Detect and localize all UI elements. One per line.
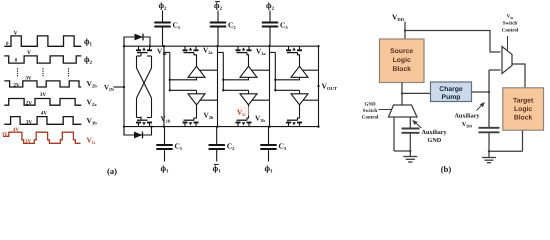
phi2 label [84, 55, 93, 66]
wire auxiliary VDD vertical [489, 70, 501, 128]
op-amp buffer A3b (down) [291, 94, 308, 105]
transistor M1b bottom pass device [183, 120, 199, 126]
node V3a label [256, 47, 266, 56]
svg-text:Pump: Pump [442, 94, 461, 101]
svg-text:Auxiliary: Auxiliary [422, 129, 448, 136]
wire cell 1 bias vertical [164, 52, 170, 90]
wire gate of M1a to buffer output [194, 53, 197, 67]
svg-text:V: V [13, 30, 17, 36]
Auxiliary GND label with arrow [412, 120, 447, 144]
wire buffer A2b output to gate of M2b [247, 105, 249, 120]
wire auxiliary VDD ground junction to Target block [488, 130, 523, 152]
op-amp buffer A1a (up) [188, 66, 205, 77]
waveform V3b trace [4, 110, 81, 125]
svg-text:Logic: Logic [514, 106, 532, 113]
transistor M2b bottom pass device [236, 120, 252, 126]
svg-text:Control: Control [502, 28, 519, 34]
wire GND mux left leg to ground [394, 117, 410, 151]
svg-text:3V: 3V [25, 138, 32, 144]
Auxiliary VDD label with arrow [454, 102, 484, 128]
wire buffer A1a supply tap [200, 69, 218, 71]
wire to Charge Pump input [402, 92, 431, 94]
node V1a label [157, 47, 167, 56]
node V3b label [255, 115, 265, 124]
svg-text:GND: GND [364, 102, 376, 108]
phi1 label [84, 37, 93, 48]
ground symbol right [482, 151, 496, 162]
wire buffer A2b supply tap [252, 99, 269, 101]
op-amp buffer A1b (down) [188, 94, 205, 105]
svg-text:Switch: Switch [363, 108, 378, 114]
svg-text:3V: 3V [26, 119, 33, 125]
wire top rail (a-node chain) [124, 45, 319, 47]
svg-text:Switch: Switch [503, 21, 518, 27]
wire buffer A3a input [274, 77, 299, 81]
wire bottom rail (b-node chain) [124, 126, 319, 128]
svg-text:Source: Source [390, 48, 413, 55]
transistor M2a top pass device [236, 46, 252, 52]
VDD power label [392, 13, 405, 23]
wire output vertical VOUT [317, 45, 319, 128]
wire GND mux control [379, 109, 392, 111]
VIN input wire [114, 86, 126, 88]
wire gate of M3a to buffer output [298, 53, 300, 67]
capacitor C3 bottom, clock phi1 [260, 127, 287, 175]
svg-text:Auxiliary: Auxiliary [454, 113, 480, 120]
wire GND mux right leg (auxiliary GND) [409, 117, 411, 128]
op-amp buffer A2a (up) [240, 66, 257, 77]
GND switch mux [389, 105, 418, 117]
Vth Switch Control label [502, 14, 519, 34]
svg-text:V: V [27, 50, 31, 56]
svg-text:Block: Block [392, 66, 411, 73]
diode D1 top bypass [124, 34, 151, 48]
svg-text:3V: 3V [2, 131, 9, 137]
transistor M2 input bottom switch [136, 117, 152, 127]
svg-text:(b): (b) [441, 164, 452, 174]
wire VDD vertical [404, 22, 406, 40]
svg-text:Charge: Charge [439, 86, 463, 93]
wire buffer A3b output to gate of M3b [298, 105, 300, 120]
transistor M3b bottom pass device [286, 120, 302, 126]
svg-text:GND: GND [428, 137, 442, 144]
VOUT label [322, 82, 337, 92]
wire buffer A1a input [169, 77, 197, 81]
waveform phi1 clock trace [4, 30, 81, 47]
node V2a label [203, 46, 213, 55]
svg-text:Logic: Logic [393, 57, 411, 64]
waveform VG staircase trace (red) [2, 127, 81, 144]
capacitor C2 bottom, clock phi1bar [209, 127, 236, 175]
op-amp buffer A2b (down) [240, 94, 257, 105]
capacitor C1 bottom, clock phi1 [156, 127, 183, 175]
cross-coupled gate wires X block [137, 56, 152, 118]
VIN label [104, 83, 115, 92]
V2b label [87, 79, 98, 89]
V2a label [87, 98, 98, 108]
wire VDD to Vth mux input [405, 31, 501, 53]
svg-text:2V: 2V [26, 101, 33, 107]
svg-text:4V: 4V [41, 110, 48, 116]
transistor M1 input top switch [136, 46, 152, 56]
node V1b label [161, 115, 171, 124]
transistor M3a top pass device [286, 46, 302, 52]
svg-text:Control: Control [362, 115, 379, 121]
wire cell 3 bias vertical [270, 52, 276, 90]
node VG label (red) [237, 107, 249, 118]
capacitor auxiliary GND [402, 129, 420, 152]
op-amp buffer A3a (up) [291, 66, 308, 77]
wire buffer A1b supply tap [200, 99, 217, 101]
waveform phi2 clock trace [4, 50, 81, 64]
node V2b label [204, 112, 214, 121]
waveform V2a trace [4, 92, 81, 106]
wire buffer A1b output to gate of M1b [194, 105, 197, 120]
wire VIN left bus [123, 37, 125, 135]
svg-text:Target: Target [513, 98, 534, 105]
capacitor auxiliary VDD [479, 128, 500, 152]
wire buffer A2b input [222, 89, 248, 94]
Target Logic Block [503, 88, 544, 130]
svg-text:2V: 2V [13, 83, 20, 89]
node V1a / V1b vertical wire [163, 45, 165, 128]
wire buffer A3b supply tap [303, 99, 318, 101]
wire buffer A2a input [222, 77, 248, 81]
node V2a / V2b vertical wire [216, 45, 218, 128]
VG label [87, 135, 96, 145]
svg-text:(a): (a) [107, 166, 117, 176]
node V3a / V3b vertical wire [268, 45, 270, 128]
subfigure label (b) [441, 164, 452, 174]
wire Vth mux output to Target block [512, 64, 525, 88]
wire Charge Pump output to auxiliary VDD rail [472, 91, 491, 93]
transistor M1a top pass device [183, 46, 199, 52]
V3b label [87, 116, 98, 126]
subfigure label (a) [107, 166, 117, 176]
wire buffer A2a supply tap [252, 69, 270, 71]
Charge Pump block [431, 82, 472, 102]
wire gate of M2a to buffer output [247, 53, 249, 67]
svg-text:4V: 4V [13, 127, 20, 133]
ellipsis dots between waveforms [17, 68, 69, 76]
ground symbol left [403, 150, 417, 162]
capacitor C2 top, clock phi2bar [210, 1, 237, 46]
GND Switch Control label [362, 102, 379, 121]
wire cell 2 bias vertical [218, 52, 224, 90]
Source Logic Block [380, 39, 425, 83]
wire buffer A3a supply tap [303, 69, 319, 71]
svg-text:Block: Block [514, 115, 533, 122]
capacitor C3 top, clock phi2 [262, 1, 289, 46]
wire buffer A3b input [274, 89, 299, 94]
svg-text:3V: 3V [40, 92, 47, 98]
capacitor C1 top, clock phi2 [154, 1, 181, 46]
diode D2 bottom bypass [124, 125, 153, 138]
wire buffer A1b input [169, 89, 197, 94]
svg-text:3V: 3V [25, 75, 32, 81]
wire Vth mux control [507, 36, 509, 51]
Vth switch mux [502, 47, 512, 74]
wire Source block to GND mux [401, 83, 403, 106]
waveform V2b trace [4, 75, 81, 88]
